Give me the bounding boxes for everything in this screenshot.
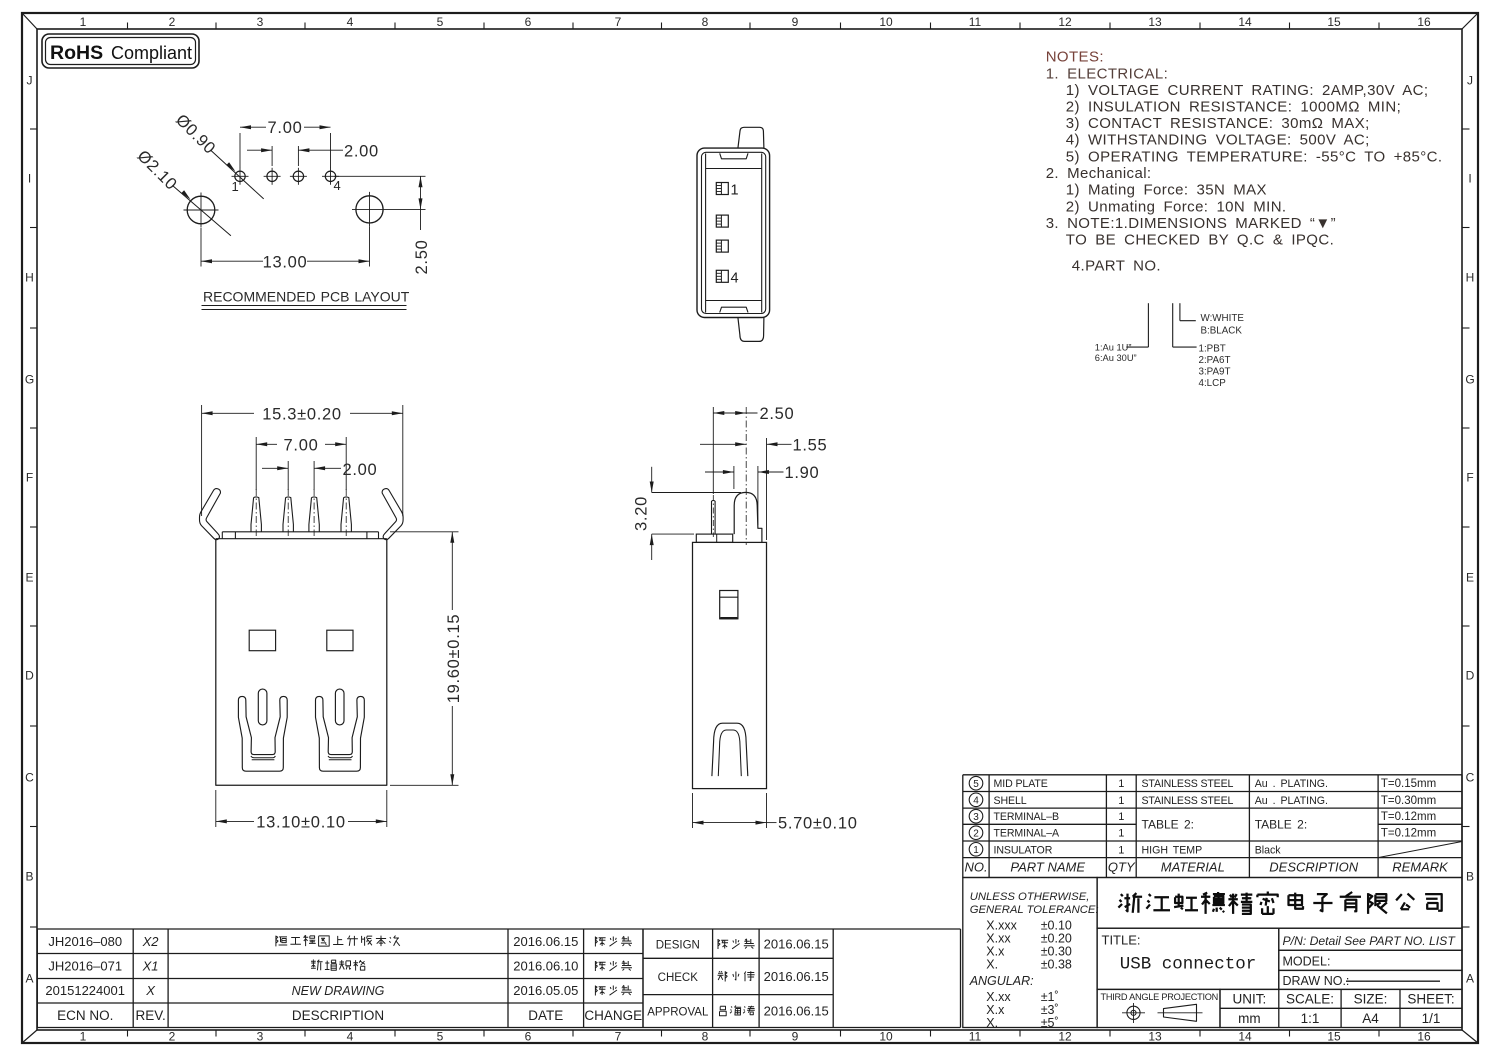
svg-text:11: 11 [969, 1030, 982, 1044]
svg-text:X.x: X.x [986, 1003, 1005, 1017]
rev1 description (chinese) [276, 936, 287, 947]
fork slot capsule [258, 689, 267, 725]
svg-text:1.90: 1.90 [785, 464, 820, 482]
svg-text:STAINLESS STEEL: STAINLESS STEEL [1142, 778, 1234, 790]
rev2 description (chinese) [311, 960, 323, 971]
company name Zhejiang Hongsui Precision Electronics Co Ltd [1118, 893, 1142, 913]
svg-text:2016.05.05: 2016.05.05 [513, 983, 578, 998]
connector front view [200, 405, 464, 832]
svg-text:GENERAL TOLERANCE:: GENERAL TOLERANCE: [970, 904, 1099, 916]
svg-text:CHANGE: CHANGE [584, 1008, 642, 1023]
svg-text:4: 4 [731, 270, 739, 286]
svg-text:NO.: NO. [964, 860, 987, 875]
svg-text:14: 14 [1238, 1030, 1252, 1044]
svg-text:10: 10 [879, 15, 893, 29]
dimension 2.50 (pin to hook centre) [712, 407, 714, 494]
svg-text:W:WHITE: W:WHITE [1201, 313, 1245, 324]
board-lock peg bottom [738, 317, 764, 341]
svg-text:H: H [1466, 271, 1475, 285]
svg-text:1. ELECTRICAL:: 1. ELECTRICAL: [1046, 65, 1168, 82]
revision history table [37, 929, 643, 1028]
crimp window side [720, 591, 738, 619]
svg-text:15: 15 [1327, 15, 1341, 29]
svg-text:3: 3 [257, 1030, 264, 1044]
svg-text:1: 1 [1118, 795, 1124, 807]
designer name (chinese) [718, 939, 728, 949]
svg-text:±0.38: ±0.38 [1041, 957, 1072, 971]
svg-text:F: F [26, 471, 33, 485]
svg-text:2. Mechanical:: 2. Mechanical: [1046, 165, 1152, 182]
svg-text:13: 13 [1148, 1030, 1162, 1044]
svg-text:1: 1 [1118, 778, 1124, 790]
svg-text:CHECK: CHECK [658, 972, 699, 984]
bottom fork side [712, 723, 748, 776]
dimension 1.90 (hook width) [733, 466, 735, 489]
shell window left [249, 630, 275, 651]
svg-text:B:BLACK: B:BLACK [1201, 326, 1243, 337]
dimension 2.50 (row offset, vertical) [334, 175, 426, 177]
svg-text:5: 5 [973, 779, 979, 790]
svg-text:±5˚: ±5˚ [1041, 1016, 1059, 1030]
svg-text:B: B [1466, 870, 1474, 884]
svg-text:3: 3 [973, 812, 979, 823]
dimension 2.00 (pin pitch front) [287, 461, 289, 490]
svg-text:E: E [1466, 571, 1474, 585]
svg-text:2.50: 2.50 [413, 240, 431, 275]
svg-text:5: 5 [437, 1030, 444, 1044]
svg-text:J: J [27, 74, 33, 88]
left latch spring hook [200, 489, 221, 540]
notes text block [1046, 49, 1443, 275]
bottom retention tab [720, 307, 748, 312]
plating branch line [1147, 303, 1149, 347]
svg-text:13: 13 [1148, 15, 1162, 29]
svg-text:D: D [25, 669, 34, 683]
svg-text:MID PLATE: MID PLATE [994, 778, 1048, 790]
approver name (chinese) [720, 1006, 727, 1016]
svg-text:11: 11 [969, 15, 982, 29]
svg-text:9: 9 [792, 15, 799, 29]
svg-text:4: 4 [973, 795, 979, 806]
pin hole pads 1-4 (small circles with crosshairs) [235, 171, 245, 181]
item number circles [969, 776, 983, 790]
svg-text:INSULATOR: INSULATOR [994, 844, 1053, 856]
svg-text:12: 12 [1058, 15, 1072, 29]
svg-text:2:PA6T: 2:PA6T [1199, 355, 1231, 366]
svg-text:ANGULAR:: ANGULAR: [969, 974, 1034, 988]
svg-text:1:Au 1U”: 1:Au 1U” [1095, 343, 1132, 353]
shell body outline side [693, 542, 767, 788]
svg-text:±0.10: ±0.10 [1041, 918, 1072, 932]
third angle projection box [1097, 989, 1220, 1027]
svg-text:E: E [25, 571, 33, 585]
color branch line [1179, 303, 1181, 321]
svg-text:SHELL: SHELL [994, 795, 1027, 807]
svg-text:X: X [145, 983, 156, 998]
svg-text:13.10±0.10: 13.10±0.10 [256, 814, 345, 832]
svg-text:TO BE CHECKED BY Q.C & I: TO BE CHECKED BY Q.C & IPQC. [1066, 232, 1334, 249]
svg-text:1) Mating Force: 35N MAX: 1) Mating Force: 35N MAX [1066, 182, 1267, 199]
svg-text:4: 4 [347, 15, 354, 29]
svg-text:8: 8 [702, 1030, 709, 1044]
svg-text:5) OPERATING TEMPERATURE: -: 5) OPERATING TEMPERATURE: -55°C TO +85°C… [1066, 148, 1443, 165]
svg-text:DESCRIPTION: DESCRIPTION [292, 1008, 384, 1023]
svg-text:1:1: 1:1 [1301, 1011, 1320, 1026]
svg-text:1: 1 [1118, 811, 1124, 823]
board-lock peg top [738, 127, 764, 148]
svg-text:D: D [1466, 669, 1475, 683]
svg-text:SCALE:: SCALE: [1286, 992, 1334, 1007]
svg-text:7.00: 7.00 [284, 437, 319, 455]
svg-text:4: 4 [347, 1030, 354, 1044]
svg-text:F: F [1466, 471, 1473, 485]
svg-text:5: 5 [437, 15, 444, 29]
svg-text:1: 1 [1118, 844, 1124, 856]
svg-text:Au . PLATING.: Au . PLATING. [1255, 795, 1328, 807]
svg-text:3. NOTE:1.DIMENSIONS MARKED: 3. NOTE:1.DIMENSIONS MARKED “▼” [1046, 215, 1336, 232]
svg-text:I: I [1468, 172, 1471, 186]
svg-text:1: 1 [731, 183, 739, 199]
svg-text:2.00: 2.00 [344, 143, 379, 161]
svg-text:X.: X. [986, 957, 998, 971]
company name box [1097, 878, 1462, 929]
svg-text:2: 2 [169, 1030, 176, 1044]
title box [1097, 928, 1279, 989]
svg-text:A: A [1466, 972, 1474, 986]
solder pin side [711, 501, 713, 534]
svg-text:X.x: X.x [986, 944, 1005, 958]
svg-text:19.60±0.15: 19.60±0.15 [445, 614, 463, 703]
shell window right [327, 630, 353, 651]
DRAW NO row [1279, 970, 1462, 989]
remark empty cell diagonal [1378, 842, 1462, 858]
svg-text:9: 9 [792, 1030, 799, 1044]
svg-text:3) CONTACT RESISTANCE: 30mΩ: 3) CONTACT RESISTANCE: 30mΩ MAX; [1066, 115, 1370, 132]
svg-text:1: 1 [973, 845, 979, 856]
svg-text:3:PA9T: 3:PA9T [1199, 366, 1231, 377]
svg-text:P/N: Detail See PART NO. L: P/N: Detail See PART NO. LIST [1283, 934, 1457, 948]
svg-text:4:LCP: 4:LCP [1199, 378, 1227, 389]
svg-text:14: 14 [1238, 15, 1252, 29]
svg-text:6:Au 30U”: 6:Au 30U” [1095, 353, 1137, 363]
design check approval block [643, 929, 961, 1028]
svg-text:MATERIAL: MATERIAL [1161, 860, 1225, 875]
svg-text:X.xx: X.xx [986, 990, 1011, 1004]
svg-text:±0.30: ±0.30 [1041, 944, 1072, 958]
svg-text:DESIGN: DESIGN [656, 939, 700, 951]
dimension 19.60±0.15 (height, vertical) [390, 531, 459, 533]
dimension 3.20 (hook height, vertical) [651, 467, 653, 493]
svg-text:2016.06.15: 2016.06.15 [513, 934, 578, 949]
svg-text:B: B [25, 870, 33, 884]
svg-text:TABLE 2:: TABLE 2: [1255, 818, 1307, 832]
svg-text:1: 1 [80, 1030, 87, 1044]
svg-text:NOTES:: NOTES: [1046, 49, 1104, 66]
svg-text:2016.06.15: 2016.06.15 [764, 936, 829, 951]
svg-text:SHEET:: SHEET: [1407, 992, 1454, 1007]
svg-text:±1˚: ±1˚ [1041, 990, 1059, 1004]
svg-text:6: 6 [525, 15, 532, 29]
dimension 7.00 (pin span) [239, 133, 241, 168]
svg-text:I: I [28, 172, 31, 186]
svg-text:H: H [25, 271, 34, 285]
svg-text:A: A [25, 972, 33, 986]
svg-text:1/1: 1/1 [1422, 1011, 1441, 1026]
svg-text:Au . PLATING.: Au . PLATING. [1255, 778, 1328, 790]
checker name (chinese) [718, 971, 728, 981]
svg-text:X.: X. [986, 1016, 998, 1030]
contacts 1-4 (hatched) [716, 183, 728, 195]
dimension 1.55 (hook centre to body edge) [766, 438, 768, 540]
svg-text:2) INSULATION RESISTANCE: 1: 2) INSULATION RESISTANCE: 1000MΩ MIN; [1066, 99, 1401, 116]
svg-text:REV.: REV. [135, 1008, 165, 1023]
svg-text:2016.06.15: 2016.06.15 [764, 969, 829, 984]
material branch line [1172, 303, 1174, 347]
svg-text:J: J [1467, 74, 1473, 88]
svg-text:1: 1 [80, 15, 87, 29]
contact forks front (2) [238, 696, 287, 771]
svg-text:7: 7 [615, 15, 622, 29]
svg-text:C: C [1466, 771, 1475, 785]
svg-text:1:PBT: 1:PBT [1199, 343, 1226, 354]
right latch spring hook [382, 489, 403, 540]
svg-text:TERMINAL–A: TERMINAL–A [994, 828, 1061, 840]
svg-text:HIGH TEMP: HIGH TEMP [1142, 844, 1203, 856]
svg-text:±3˚: ±3˚ [1041, 1003, 1059, 1017]
svg-text:THIRD ANGLE PROJECTION: THIRD ANGLE PROJECTION [1101, 992, 1219, 1002]
inner horizontal partitions [706, 168, 762, 170]
dimension 13.00 (mount hole span) [200, 228, 202, 267]
svg-text:APPROVAL: APPROVAL [647, 1007, 709, 1019]
svg-text:A4: A4 [1362, 1011, 1379, 1026]
P/N row [1279, 928, 1462, 950]
svg-text:NEW DRAWING: NEW DRAWING [292, 984, 385, 998]
shell outer shell [697, 148, 770, 317]
svg-text:20151224001: 20151224001 [45, 983, 125, 998]
svg-text:JH2016–071: JH2016–071 [48, 958, 122, 973]
svg-text:6: 6 [525, 1030, 532, 1044]
dimension 2.00 (pin pitch) [271, 146, 273, 166]
connector side view [633, 405, 858, 833]
svg-text:QTY: QTY [1108, 860, 1136, 875]
svg-text:Black: Black [1255, 844, 1282, 856]
svg-text:TITLE:: TITLE: [1102, 933, 1141, 948]
svg-text:2.50: 2.50 [760, 405, 795, 423]
svg-text:15.3±0.20: 15.3±0.20 [262, 406, 342, 424]
fork slot capsule [335, 689, 344, 725]
shell body outline front [216, 539, 387, 786]
svg-text:12: 12 [1058, 1030, 1072, 1044]
svg-text:USB connector: USB connector [1120, 955, 1257, 975]
tolerance box [963, 878, 1097, 1028]
svg-text:mm: mm [1238, 1011, 1261, 1026]
svg-text:RECOMMENDED PCB LAYOUT: RECOMMENDED PCB LAYOUT [203, 289, 410, 305]
svg-text:16: 16 [1417, 1030, 1431, 1044]
dimension 13.10±0.10 (body width) [215, 790, 217, 827]
svg-text:4) WITHSTANDING VOLTAGE: 50: 4) WITHSTANDING VOLTAGE: 500V AC; [1066, 132, 1370, 149]
projection symbol cone [1164, 1004, 1197, 1021]
svg-text:REMARK: REMARK [1392, 860, 1449, 875]
board-lock hook side [734, 492, 762, 542]
dimension 7.00 (pin span front) [255, 437, 257, 490]
svg-text:±0.20: ±0.20 [1041, 931, 1072, 945]
svg-text:X2: X2 [142, 934, 160, 949]
svg-text:T=0.12mm: T=0.12mm [1381, 811, 1436, 823]
mount hole right (large circle) [356, 196, 383, 223]
title block [963, 878, 1462, 1031]
svg-text:G: G [25, 373, 34, 387]
svg-text:ECN NO.: ECN NO. [57, 1008, 113, 1023]
svg-text:7: 7 [615, 1030, 622, 1044]
dimension 5.70±0.10 (depth) [692, 793, 694, 828]
svg-text:TABLE 2:: TABLE 2: [1142, 818, 1194, 832]
svg-text:UNIT:: UNIT: [1233, 992, 1267, 1007]
svg-text:PART NAME: PART NAME [1010, 860, 1085, 875]
svg-text:DATE: DATE [528, 1008, 563, 1023]
svg-text:13.00: 13.00 [263, 254, 308, 272]
solder pins (4 needles) [251, 497, 261, 532]
part number legend tree [1095, 303, 1245, 389]
svg-text:UNLESS OTHERWISE,: UNLESS OTHERWISE, [970, 891, 1090, 903]
inner side wall lines [705, 154, 707, 313]
svg-text:3.20: 3.20 [633, 496, 651, 531]
svg-text:16: 16 [1417, 15, 1431, 29]
connector top (mating face) view [697, 127, 770, 341]
svg-text:STAINLESS STEEL: STAINLESS STEEL [1142, 795, 1234, 807]
svg-text:2) Unmating Force: 10N MIN: 2) Unmating Force: 10N MIN. [1066, 198, 1287, 215]
svg-text:T=0.15mm: T=0.15mm [1381, 778, 1436, 790]
shell top plate [222, 531, 378, 533]
svg-text:SIZE:: SIZE: [1354, 992, 1388, 1007]
recommended PCB layout view [134, 111, 431, 310]
svg-text:MODEL:: MODEL: [1283, 955, 1331, 969]
svg-text:X.xxx: X.xxx [986, 918, 1017, 932]
svg-text:DRAW NO.:: DRAW NO.: [1283, 974, 1350, 988]
top retention tab [720, 153, 748, 159]
svg-text:8: 8 [702, 15, 709, 29]
svg-text:JH2016–080: JH2016–080 [48, 934, 122, 949]
shell inner wall [702, 152, 766, 313]
svg-text:2: 2 [169, 15, 176, 29]
svg-text:7.00: 7.00 [268, 119, 303, 137]
svg-text:1) VOLTAGE CURRENT RATING:: 1) VOLTAGE CURRENT RATING: 2AMP,30V AC; [1066, 82, 1429, 99]
svg-text:1: 1 [1118, 828, 1124, 840]
unit scale size sheet grid [1220, 989, 1462, 1027]
svg-text:Compliant: Compliant [111, 43, 192, 63]
svg-text:4: 4 [334, 178, 341, 193]
mount hole left (large circle) [187, 196, 215, 224]
svg-text:5.70±0.10: 5.70±0.10 [778, 815, 858, 833]
RoHS Compliant label box [42, 34, 199, 68]
svg-text:2.00: 2.00 [343, 461, 378, 479]
svg-text:10: 10 [879, 1030, 893, 1044]
dimension 15.3±0.20 (overall width) [201, 405, 203, 516]
svg-text:2016.06.10: 2016.06.10 [513, 958, 578, 973]
svg-text:15: 15 [1327, 1030, 1341, 1044]
svg-text:3: 3 [257, 15, 264, 29]
svg-text:1.55: 1.55 [793, 436, 828, 454]
svg-text:X.xx: X.xx [986, 931, 1011, 945]
svg-text:C: C [25, 771, 34, 785]
svg-text:DESCRIPTION: DESCRIPTION [1269, 860, 1358, 875]
svg-text:1: 1 [232, 179, 239, 194]
pin ledge [696, 534, 732, 542]
svg-text:G: G [1465, 373, 1474, 387]
svg-text:4.PART NO.: 4.PART NO. [1072, 258, 1161, 275]
svg-text:2016.06.15: 2016.06.15 [764, 1004, 829, 1019]
projection symbol circles [1127, 1006, 1140, 1019]
svg-text:RoHS: RoHS [50, 42, 103, 64]
svg-text:T=0.30mm: T=0.30mm [1381, 795, 1436, 807]
svg-text:2: 2 [973, 828, 979, 839]
parts list table [963, 775, 1462, 878]
svg-text:T=0.12mm: T=0.12mm [1381, 828, 1436, 840]
svg-text:X1: X1 [142, 958, 159, 973]
MODEL row [1279, 950, 1462, 970]
svg-text:TERMINAL–B: TERMINAL–B [994, 811, 1060, 823]
